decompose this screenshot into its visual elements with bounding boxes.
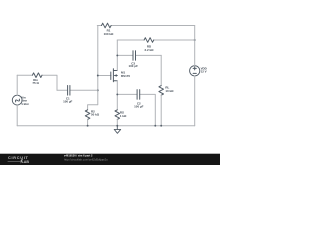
capacitor C3 xyxy=(133,51,136,61)
resistor R2 xyxy=(85,110,90,120)
wire VDD bottom vertical xyxy=(194,76,196,126)
footer bar xyxy=(0,154,220,165)
svg-text:100 µF: 100 µF xyxy=(134,104,143,108)
wire drain vertical xyxy=(116,40,118,71)
wire RL top vertical xyxy=(160,55,162,85)
label R1 xyxy=(104,29,114,36)
label RD xyxy=(145,45,155,52)
wire top rail xyxy=(97,25,194,27)
resistor R1 xyxy=(102,23,112,28)
wire Rin row xyxy=(17,75,57,90)
label RS xyxy=(120,110,127,118)
resistor Rin xyxy=(32,73,42,78)
node source C2 T xyxy=(116,93,118,95)
wire bottom rail xyxy=(17,125,195,127)
wire VDD top vertical xyxy=(194,26,196,66)
resistor RL xyxy=(159,86,164,96)
capacitor C2 xyxy=(137,90,140,100)
footer title text xyxy=(64,154,108,162)
node second rail right T xyxy=(194,39,196,41)
svg-text:100 µF: 100 µF xyxy=(63,99,72,103)
wire R2 bottom stub xyxy=(87,119,89,125)
node drain C3 T xyxy=(116,54,118,56)
transistor M1 xyxy=(111,69,118,82)
wire source vertical xyxy=(116,81,118,110)
node C1 T xyxy=(97,89,99,91)
svg-text:100 kΩ: 100 kΩ xyxy=(104,32,114,36)
node gate T xyxy=(97,75,99,77)
source Vin xyxy=(12,95,22,105)
svg-text:CIRCUIT: CIRCUIT xyxy=(8,156,29,160)
node RL rail T xyxy=(160,125,162,127)
resistor RD xyxy=(144,38,154,43)
wire gate-node vertical xyxy=(88,26,98,110)
label C2 xyxy=(134,102,143,109)
wire second rail drain to VDD xyxy=(117,39,194,41)
wire RL bottom vertical xyxy=(160,95,162,126)
svg-text:1 kHz: 1 kHz xyxy=(21,102,29,106)
svg-text:2.2 kΩ: 2.2 kΩ xyxy=(145,48,155,52)
svg-text:75 Ω: 75 Ω xyxy=(32,81,39,85)
svg-text:10 kΩ: 10 kΩ xyxy=(165,89,174,93)
svg-text:http://circuitlab.com/ce62d5dt: http://circuitlab.com/ce62d5dtjqw2u xyxy=(64,157,108,161)
wire RS bottom stub xyxy=(116,119,118,125)
svg-text:LAB: LAB xyxy=(22,160,30,164)
wire C2 row xyxy=(117,94,155,125)
svg-text:1 kΩ: 1 kΩ xyxy=(120,114,127,118)
logo CircuitLab xyxy=(8,156,29,164)
source VDD xyxy=(190,66,200,76)
svg-text:12 V: 12 V xyxy=(201,69,207,73)
node ground rail T xyxy=(116,125,118,127)
label C3 xyxy=(129,61,139,68)
label C1 xyxy=(63,96,72,103)
label R2 xyxy=(91,110,100,117)
svg-text:50 kΩ: 50 kΩ xyxy=(91,113,100,117)
ground xyxy=(114,126,121,134)
capacitor C1 xyxy=(68,86,70,96)
svg-text:100 pF: 100 pF xyxy=(129,64,139,68)
label VDD xyxy=(201,67,207,74)
label Vin xyxy=(21,96,29,106)
wire Vin top vertical xyxy=(16,75,18,95)
node C2 rail T xyxy=(154,125,156,127)
wire gate branch xyxy=(98,75,111,77)
wire C1 row xyxy=(57,89,98,91)
node R2 rail T xyxy=(87,125,89,127)
resistor RS xyxy=(115,110,120,120)
label Rin xyxy=(32,78,39,85)
wire Vin bottom vertical xyxy=(16,105,18,126)
label RL xyxy=(165,86,174,93)
svg-text:BS170: BS170 xyxy=(121,74,130,78)
wire C3 row xyxy=(117,54,161,56)
label M1 xyxy=(121,70,130,78)
